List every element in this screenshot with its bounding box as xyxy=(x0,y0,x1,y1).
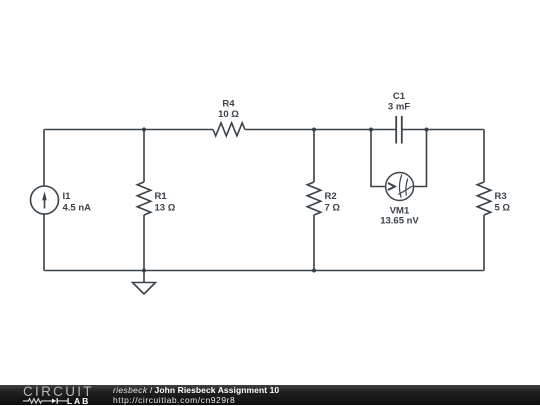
svg-text:LAB: LAB xyxy=(67,396,90,406)
svg-text:5 Ω: 5 Ω xyxy=(495,202,511,213)
svg-text:4.5 nA: 4.5 nA xyxy=(63,202,92,213)
ground xyxy=(133,271,156,295)
resistor R1 xyxy=(137,182,151,215)
svg-text:10 Ω: 10 Ω xyxy=(218,109,239,120)
svg-text:13.65 nV: 13.65 nV xyxy=(380,216,419,227)
node junction top R2 xyxy=(312,128,316,132)
svg-text:I1: I1 xyxy=(63,191,72,202)
wire R1 top xyxy=(143,130,145,183)
wire left vertical lower xyxy=(43,214,45,271)
capacitor C1 xyxy=(396,116,402,144)
svg-text:R3: R3 xyxy=(495,191,507,202)
svg-text:C1: C1 xyxy=(393,91,406,102)
node junction top R1 xyxy=(142,128,146,132)
wire bottom xyxy=(44,270,484,272)
voltmeter VM1 xyxy=(386,173,414,201)
svg-text:R2: R2 xyxy=(325,191,337,202)
svg-text:7 Ω: 7 Ω xyxy=(325,202,341,213)
wire top middle xyxy=(245,129,396,131)
wire VM1 left branch xyxy=(371,130,386,187)
wire top right xyxy=(402,129,484,131)
wire top left xyxy=(44,129,213,131)
current source I1 xyxy=(31,186,59,214)
node junction bottom ground xyxy=(142,269,146,273)
node junction VM1 left xyxy=(369,128,373,132)
svg-text:13 Ω: 13 Ω xyxy=(155,202,176,213)
resistor R3 xyxy=(477,182,491,215)
resistor R4 xyxy=(213,123,245,136)
CircuitLab logo xyxy=(0,385,110,406)
wire R2 bottom xyxy=(313,215,315,271)
footer title line xyxy=(113,386,279,395)
node junction bottom R2 xyxy=(312,269,316,273)
footer url line xyxy=(113,396,235,405)
svg-text:3 mF: 3 mF xyxy=(388,102,410,113)
wire right vertical lower xyxy=(483,215,485,271)
wire left vertical xyxy=(43,130,45,187)
svg-text:R1: R1 xyxy=(155,191,168,202)
wire R1 bottom xyxy=(143,215,145,271)
wire VM1 right branch xyxy=(414,130,427,187)
wire right vertical upper xyxy=(483,130,485,183)
resistor R2 xyxy=(307,182,321,215)
node junction VM1 right xyxy=(425,128,429,132)
wire R2 top xyxy=(313,130,315,183)
